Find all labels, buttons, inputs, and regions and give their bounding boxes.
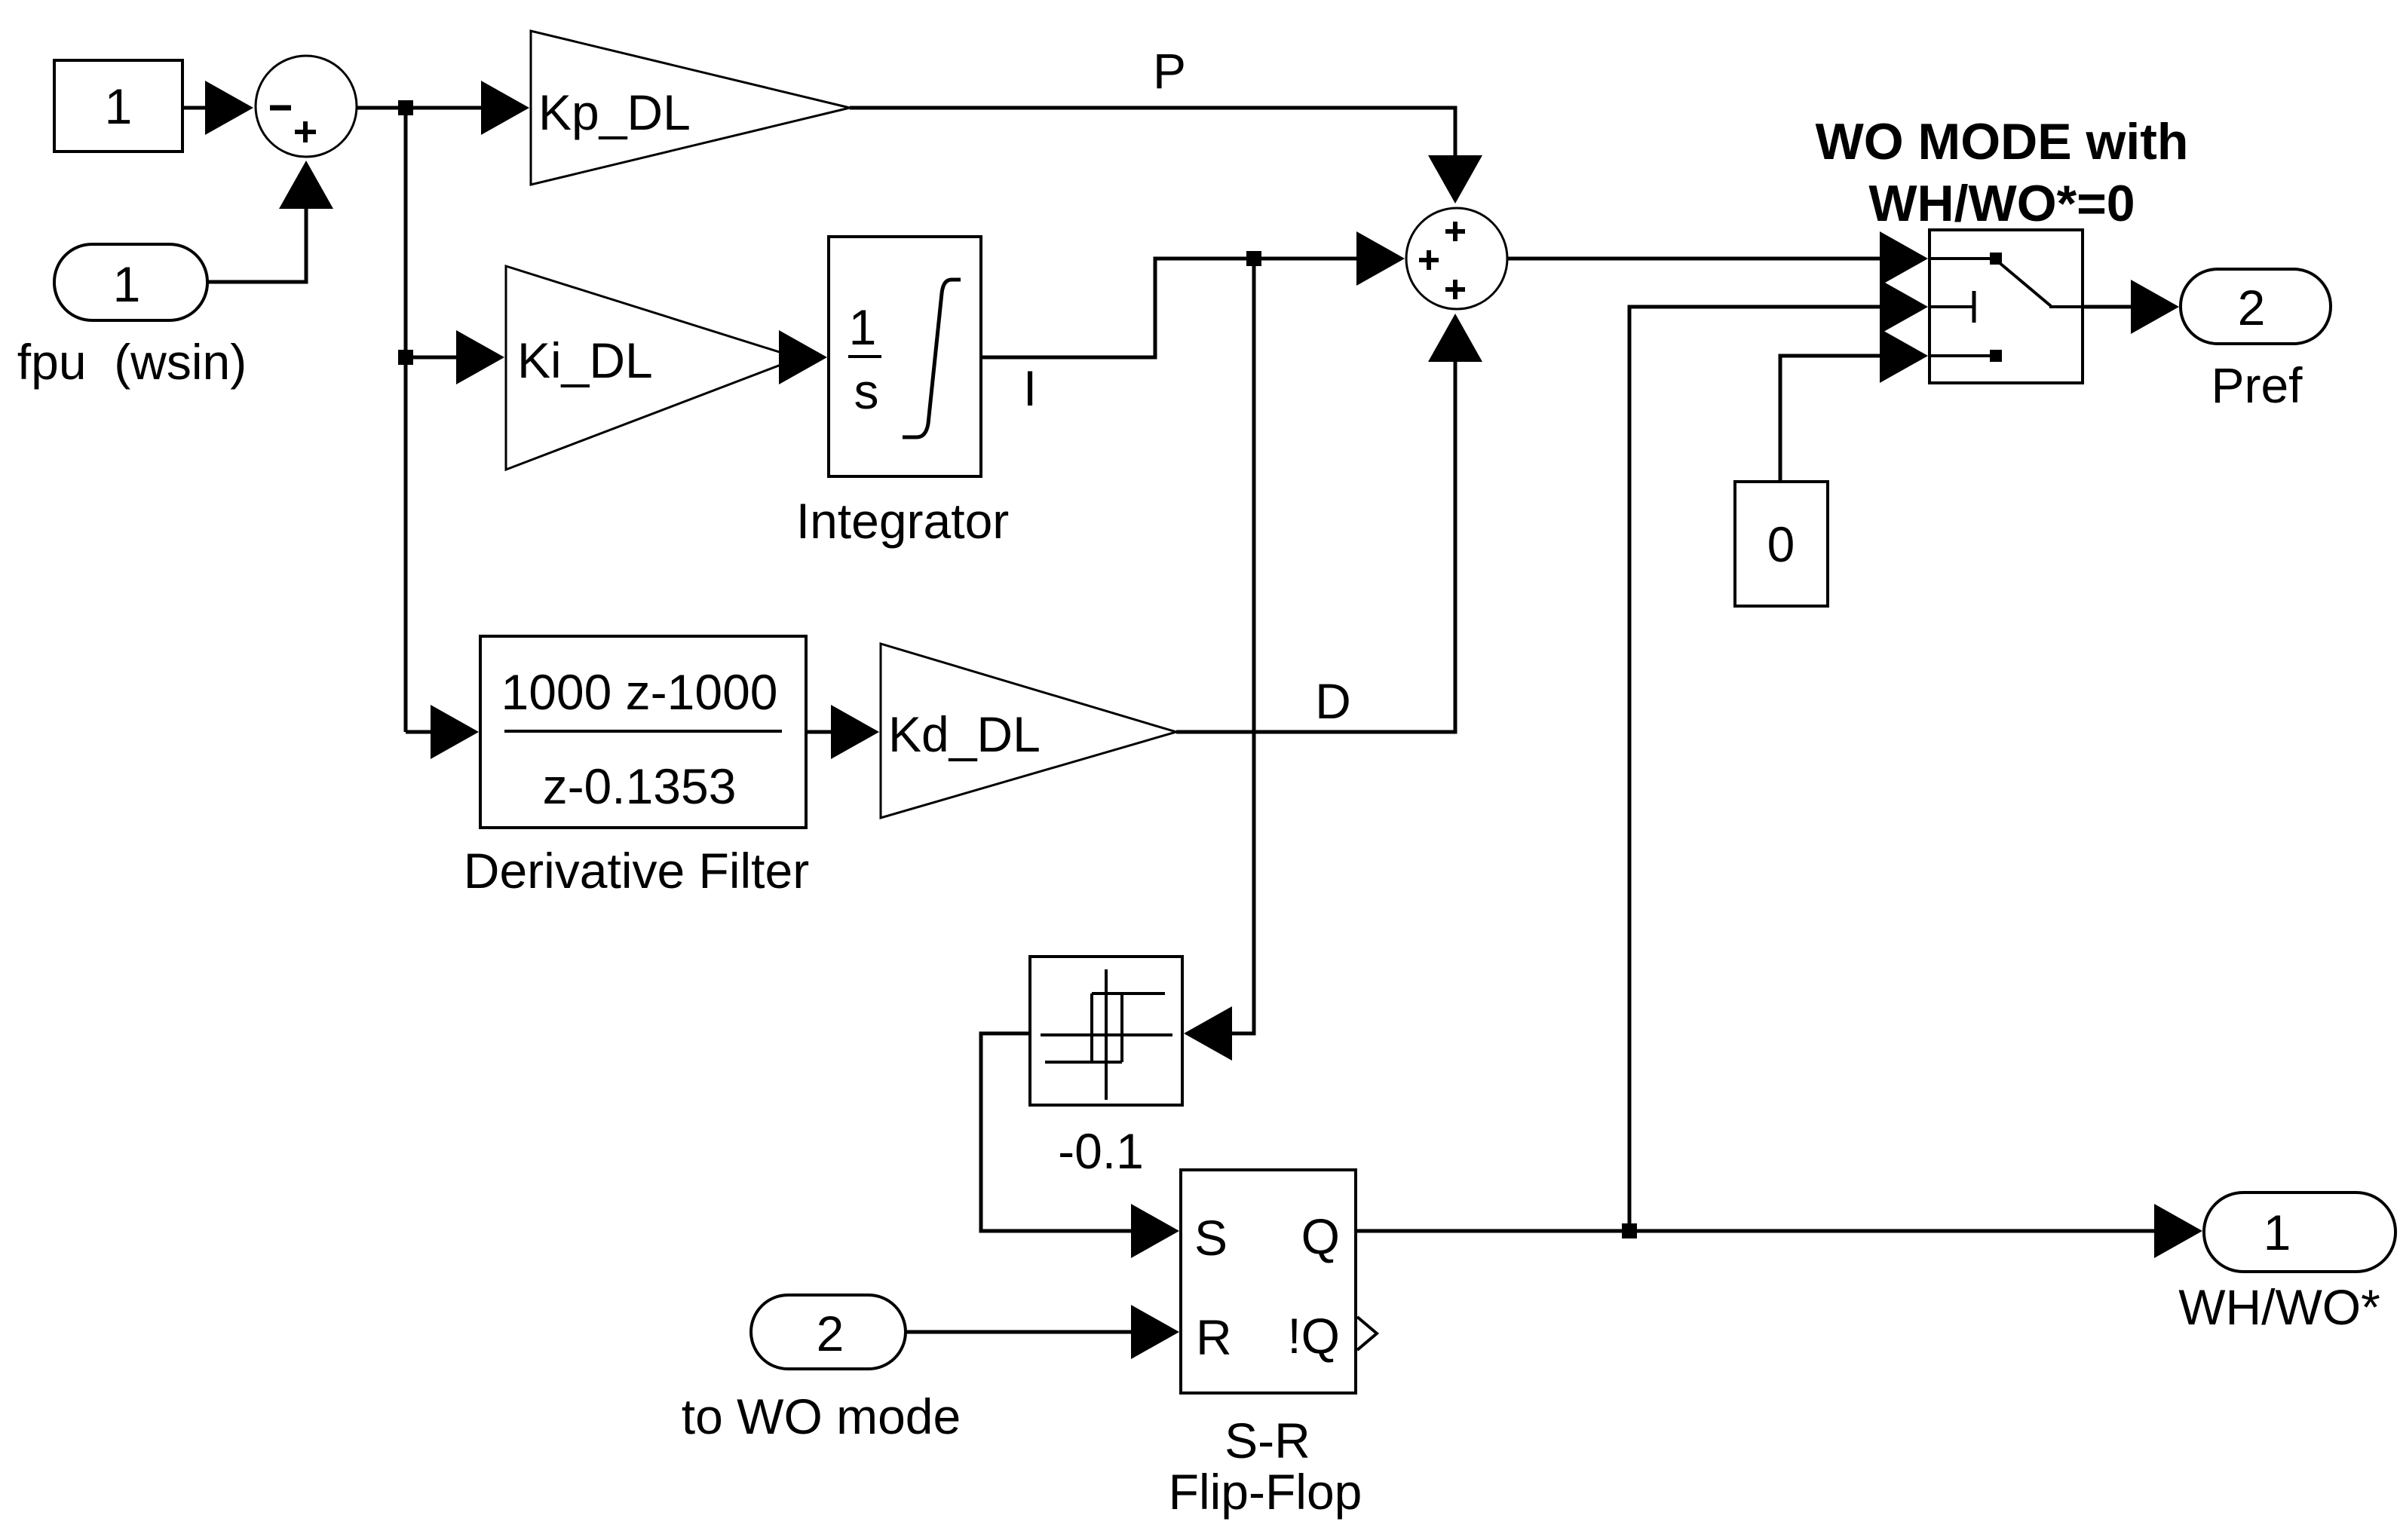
gain block Ki_DL: [506, 266, 798, 470]
wire trunk to Derivative Filter: [406, 705, 479, 759]
svg-text:2: 2: [2238, 280, 2266, 335]
input port 2: [751, 1295, 906, 1369]
output port 1 WH/WO*: [2204, 1193, 2395, 1272]
svg-text:Integrator: Integrator: [796, 493, 1010, 549]
svg-text:S-R: S-R: [1225, 1413, 1310, 1468]
wire fpu to sum1 plus input: [207, 161, 333, 282]
sum block sum2: [1406, 208, 1507, 309]
wire Ki_DL to Integrator: [779, 330, 827, 384]
wire Kp_DL output P to sum2 top: [850, 108, 1482, 204]
wire junction up to switch input2: [1629, 280, 1928, 1231]
svg-text:R: R: [1196, 1309, 1232, 1365]
svg-text:1: 1: [2264, 1205, 2291, 1260]
wire constant1 to sum1: [182, 81, 253, 135]
constant block "0": [1735, 482, 1828, 606]
svg-text:P: P: [1153, 43, 1186, 99]
integrator block: [829, 237, 981, 476]
svg-text:WH/WO*=0: WH/WO*=0: [1868, 175, 2135, 232]
wire Integrator output I to sum2 left: [981, 231, 1405, 357]
svg-text:1000 z-1000: 1000 z-1000: [501, 664, 778, 720]
svg-text:to WO mode: to WO mode: [682, 1388, 961, 1444]
svg-text:z-0.1353: z-0.1353: [543, 758, 737, 814]
wire input2 to R input: [906, 1305, 1179, 1359]
svg-text:s: s: [854, 363, 879, 419]
wire switch output to Pref: [2083, 280, 2179, 334]
title WO MODE with WH/WO*=0: [1816, 113, 2189, 232]
junction dot on I wire: [1246, 251, 1261, 266]
svg-text:2: 2: [817, 1306, 844, 1361]
svg-text:Q: Q: [1301, 1208, 1340, 1264]
svg-text:I: I: [1023, 360, 1037, 416]
svg-text:Derivative Filter: Derivative Filter: [464, 843, 809, 899]
svg-text:1: 1: [105, 78, 133, 134]
wire trunk to Ki_DL: [406, 330, 504, 384]
wire constant0 to switch input3: [1780, 329, 1928, 482]
junction dot on trunk at Ki row: [398, 350, 413, 365]
wire Derivative Filter to Kd_DL: [806, 705, 879, 759]
wire Kd_DL output D to sum2 bottom: [1176, 314, 1482, 732]
svg-text:Ki_DL: Ki_DL: [517, 332, 653, 388]
svg-text:WH/WO*: WH/WO*: [2178, 1279, 2380, 1335]
constant block "1": [54, 60, 182, 152]
junction dot at sum1 output: [398, 100, 413, 115]
wire sum1 output to junction and Kp_DL: [357, 81, 529, 135]
svg-text:0: 0: [1767, 516, 1795, 572]
svg-text:Kd_DL: Kd_DL: [888, 706, 1041, 762]
svg-text:S: S: [1194, 1210, 1228, 1266]
gain block Kp_DL: [531, 31, 850, 185]
svg-text:1: 1: [849, 299, 877, 355]
svg-text:-0.1: -0.1: [1058, 1123, 1144, 1179]
svg-text:Flip-Flop: Flip-Flop: [1169, 1464, 1362, 1520]
wire vertical trunk: [404, 108, 408, 732]
gain block Kd_DL: [881, 644, 1176, 818]
wire junction down to relay input: [1184, 259, 1254, 1061]
svg-text:fpu (wsin): fpu (wsin): [17, 334, 247, 390]
svg-text:1: 1: [113, 256, 141, 312]
S-R flip-flop block: [1181, 1170, 1377, 1393]
derivative filter block: [480, 636, 806, 828]
wire Q output to WH/WO*: [1356, 1204, 2202, 1258]
relay block: [1030, 957, 1182, 1105]
svg-text:WO MODE with: WO MODE with: [1816, 113, 2189, 170]
svg-text:D: D: [1315, 673, 1351, 729]
wire sum2 output to switch input1: [1507, 231, 1928, 286]
junction dot on Q wire: [1622, 1223, 1637, 1238]
svg-text:Kp_DL: Kp_DL: [538, 84, 691, 140]
switch block: [1930, 230, 2083, 383]
svg-text:!Q: !Q: [1287, 1308, 1340, 1364]
output port 2 Pref: [2181, 269, 2331, 344]
sum block sum1: [256, 56, 357, 157]
svg-text:Pref: Pref: [2211, 357, 2303, 413]
wire relay output to S input: [981, 1033, 1179, 1258]
input port 1 fpu (wsin): [54, 244, 207, 320]
